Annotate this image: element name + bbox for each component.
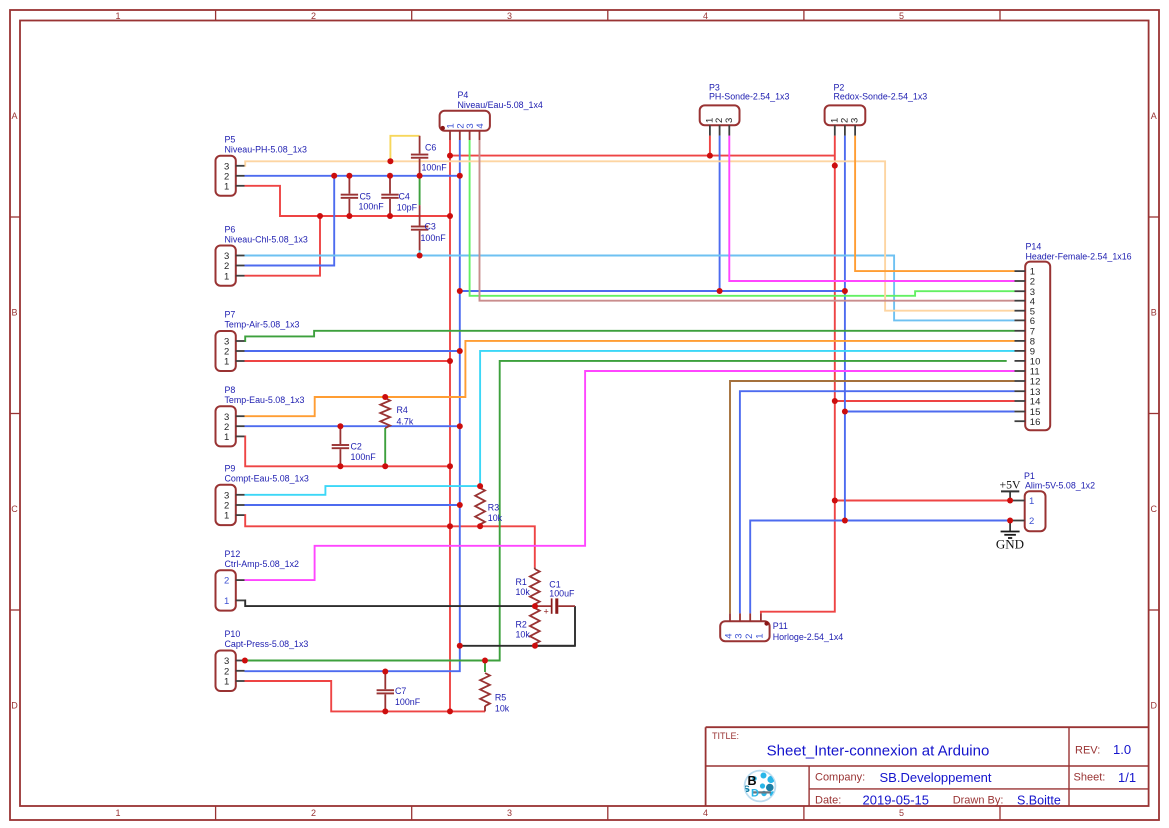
svg-text:1/1: 1/1: [1118, 770, 1136, 785]
border row tick left: [10, 216, 20, 218]
connector P10: [216, 651, 245, 692]
junction R4 top orange: [382, 394, 388, 400]
junction C6 bottom blue bus: [417, 173, 423, 179]
svg-text:Redox-Sonde-2.54_1x3: Redox-Sonde-2.54_1x3: [834, 91, 928, 101]
svg-text:B: B: [1151, 308, 1157, 318]
svg-text:Sheet:: Sheet:: [1074, 772, 1106, 784]
P11 pin1 junction dot inside box: [764, 621, 768, 625]
svg-text:A: A: [11, 111, 17, 121]
border column tick top: [411, 10, 413, 21]
junction GND node: [1007, 518, 1013, 524]
junction C2 top: [337, 423, 343, 429]
svg-text:D: D: [751, 788, 759, 800]
resistor R1: [530, 569, 540, 604]
svg-text:3: 3: [507, 808, 512, 818]
connector P1: [1010, 491, 1045, 531]
wire P6 pin1 branch: [245, 216, 321, 276]
svg-text:10k: 10k: [495, 703, 510, 713]
junction C4 top: [387, 173, 393, 179]
svg-text:4: 4: [703, 11, 708, 21]
svg-text:+: +: [544, 607, 549, 617]
ground symbol GND: [1001, 521, 1020, 539]
connector P2: [825, 105, 866, 135]
svg-text:10pF: 10pF: [397, 203, 418, 213]
svg-text:P8: P8: [225, 385, 236, 395]
border column tick bottom: [999, 806, 1001, 820]
capacitor C5: [341, 176, 358, 216]
border column tick bottom: [215, 806, 217, 820]
svg-text:P4: P4: [458, 90, 469, 100]
junction P6 pin2 branch: [331, 173, 337, 179]
junction R3 top cyan: [477, 483, 483, 489]
wire red net horizontal to P3/P2: [450, 155, 835, 157]
junction C7 bottom: [382, 708, 388, 714]
svg-text:2: 2: [224, 576, 229, 587]
svg-text:D: D: [11, 701, 18, 711]
border column tick bottom: [607, 806, 609, 820]
svg-text:Capt-Press-5.08_1x3: Capt-Press-5.08_1x3: [225, 639, 309, 649]
svg-text:C4: C4: [399, 192, 410, 202]
svg-text:10k: 10k: [516, 629, 531, 639]
junction P2 pin2: [842, 288, 848, 294]
svg-text:1: 1: [1029, 496, 1034, 507]
junction P7 pin1: [447, 358, 453, 364]
connector P11: [720, 613, 769, 641]
svg-text:Header-Female-2.54_1x16: Header-Female-2.54_1x16: [1026, 251, 1132, 261]
svg-text:PH-Sonde-2.54_1x3: PH-Sonde-2.54_1x3: [709, 91, 789, 101]
svg-text:1: 1: [224, 511, 229, 522]
svg-text:10k: 10k: [516, 587, 531, 597]
svg-text:C5: C5: [360, 192, 371, 202]
svg-text:4.7k: 4.7k: [397, 417, 414, 427]
junction C5 bottom: [346, 213, 352, 219]
junction P3 pin1: [707, 153, 713, 159]
svg-text:2: 2: [1029, 516, 1034, 527]
R3 bottom lead: [479, 524, 481, 526]
svg-text:4: 4: [475, 123, 486, 128]
wire P14 pin13 to P11 pin3: [740, 391, 1015, 613]
junction R2 bottom: [532, 643, 538, 649]
wire green segment R5 top: [484, 661, 486, 673]
svg-text:R2: R2: [516, 619, 527, 629]
svg-text:GND: GND: [996, 537, 1024, 552]
svg-text:100nF: 100nF: [422, 163, 448, 173]
wire P14 pin12 to P11 pin4 brown: [730, 381, 1015, 613]
title block outline: [706, 727, 1149, 806]
wire P12 pin1 black net: [245, 600, 536, 606]
svg-text:6: 6: [1030, 316, 1035, 327]
svg-text:3: 3: [507, 11, 512, 21]
svg-text:Company:: Company:: [815, 772, 865, 784]
capacitor C2: [332, 426, 349, 466]
svg-text:100nF: 100nF: [421, 233, 447, 243]
junction red net P14 pin14: [832, 398, 838, 404]
wire P6 pin2 branch to blue line: [245, 176, 335, 266]
junction R1 bottom black node: [532, 603, 538, 609]
svg-text:Temp-Eau-5.08_1x3: Temp-Eau-5.08_1x3: [225, 395, 305, 405]
wire P10 pin1 to red bus and R5 bottom: [245, 681, 486, 711]
wire P12 pin2 to P14 pin11 magenta: [245, 371, 1015, 580]
junction R5 top green: [482, 658, 488, 664]
wire green segment R4 bottom: [384, 428, 386, 466]
wire P3 pin2 to blue net: [719, 136, 721, 291]
svg-text:100nF: 100nF: [351, 452, 377, 462]
junction P3 pin2: [717, 288, 723, 294]
connector P8: [216, 406, 245, 446]
svg-text:5: 5: [899, 11, 904, 21]
svg-text:3: 3: [724, 118, 735, 123]
svg-text:P14: P14: [1026, 242, 1042, 252]
svg-text:16: 16: [1030, 417, 1041, 428]
wire P8 pin3 to P14 pin8 orange: [245, 341, 1015, 416]
junction P8 pin2: [457, 423, 463, 429]
svg-text:C: C: [1151, 504, 1158, 514]
svg-text:Horloge-2.54_1x4: Horloge-2.54_1x4: [773, 632, 844, 642]
svg-text:10k: 10k: [488, 513, 503, 523]
wire P2 pin2 vertical to P11/P1 row: [844, 136, 846, 521]
wire P7 pin2 to blue bus: [245, 350, 460, 352]
junction C5 top: [346, 173, 352, 179]
svg-text:14: 14: [1030, 397, 1041, 408]
svg-text:+5V: +5V: [999, 478, 1021, 492]
svg-text:TITLE:: TITLE:: [712, 731, 739, 741]
border column tick top: [607, 10, 609, 21]
svg-text:2019-05-15: 2019-05-15: [863, 793, 930, 808]
border column tick top: [215, 10, 217, 21]
resistor R4: [380, 398, 390, 428]
wire P9 pin3 to P14 pin9 cyan: [245, 486, 481, 495]
svg-text:1: 1: [224, 181, 229, 192]
wire black R2 bottom row: [535, 645, 575, 647]
svg-text:5: 5: [899, 808, 904, 818]
svg-text:1: 1: [115, 11, 120, 21]
junction red bus y216: [447, 213, 453, 219]
title block company logo: [744, 771, 776, 802]
connector P3: [700, 105, 740, 135]
R5 bottom lead: [484, 706, 486, 711]
svg-text:100uF: 100uF: [549, 588, 575, 598]
title block logo cell divider: [808, 766, 810, 806]
junction P9 pin2: [457, 502, 463, 508]
svg-text:REV:: REV:: [1075, 744, 1100, 756]
capacitor C4: [381, 176, 398, 216]
svg-text:Niveau/Eau-5.08_1x4: Niveau/Eau-5.08_1x4: [458, 100, 543, 110]
svg-text:A: A: [1151, 111, 1157, 121]
junction P7 pin2: [457, 348, 463, 354]
junction red bus y526: [447, 523, 453, 529]
junction R4 bottom: [382, 463, 388, 469]
junction red bus bottom: [447, 708, 453, 714]
+5V power symbol: [1001, 491, 1019, 500]
svg-text:P9: P9: [225, 463, 236, 473]
wire +5V red net: P4 pin1 vertical bus: [449, 140, 451, 711]
wire P8 pin2 to blue bus: [245, 425, 460, 427]
junction C7 top: [382, 669, 388, 675]
svg-text:1: 1: [224, 677, 229, 688]
wire P3 pin1 to red net: [709, 136, 711, 156]
junction R3 bottom: [477, 523, 483, 529]
svg-text:C3: C3: [425, 222, 436, 232]
svg-text:1: 1: [755, 634, 766, 639]
junction black line blue bus: [457, 643, 463, 649]
title block row divider 1: [706, 765, 1149, 767]
junction C2 bottom: [337, 463, 343, 469]
svg-text:P7: P7: [225, 310, 236, 320]
svg-text:C6: C6: [425, 143, 436, 153]
wire black net C1 return to blue bus: [460, 606, 575, 646]
svg-text:1: 1: [224, 596, 229, 607]
svg-text:P5: P5: [225, 135, 236, 145]
R2 bottom lead: [534, 644, 536, 646]
connector P6: [216, 246, 245, 286]
svg-text:1.0: 1.0: [1113, 742, 1131, 757]
svg-text:P6: P6: [225, 224, 236, 234]
svg-text:Compt-Eau-5.08_1x3: Compt-Eau-5.08_1x3: [225, 473, 309, 483]
connector P12: [216, 570, 245, 610]
P4 pin1 junction dot inside box: [441, 126, 445, 130]
svg-text:R4: R4: [397, 405, 408, 415]
border column tick top: [999, 10, 1001, 21]
wire cyan R3 top to P14 pin9: [480, 351, 1014, 486]
svg-text:R5: R5: [495, 693, 506, 703]
svg-text:R3: R3: [488, 502, 499, 512]
wire P5 pin3 to P14 pin5 peach: [245, 161, 1015, 310]
junction red bus y466: [447, 463, 453, 469]
border column tick bottom: [803, 806, 805, 820]
wire blue net horizontal to P3/P2 pin2: [460, 290, 845, 292]
svg-text:1: 1: [224, 271, 229, 282]
svg-text:1: 1: [115, 808, 120, 818]
junction P2 pin1: [832, 163, 838, 169]
svg-text:Sheet_Inter-connexion at Ardui: Sheet_Inter-connexion at Arduino: [767, 742, 990, 759]
junction red bus to P3/P2 row: [447, 153, 453, 159]
wire red net to P14 pin14: [835, 400, 1015, 402]
svg-text:C2: C2: [351, 442, 362, 452]
border row tick right: [1149, 413, 1159, 415]
wire P10 pin3 to P14 pin10 green open end: [245, 361, 1007, 661]
wire C3 bottom cyan stub: [419, 250, 421, 255]
svg-text:2: 2: [744, 634, 755, 639]
connector P14 header female 1x16: [1015, 262, 1051, 431]
svg-text:Date:: Date:: [815, 794, 841, 806]
border row tick left: [10, 413, 20, 415]
resistor R5: [480, 673, 490, 706]
svg-text:R1: R1: [516, 577, 527, 587]
svg-text:100nF: 100nF: [395, 697, 421, 707]
svg-text:P12: P12: [225, 549, 241, 559]
wire P11 pin2 to blue net and P1 pin2 GND: [750, 521, 1010, 614]
svg-text:1: 1: [224, 432, 229, 443]
svg-text:Niveau-Chl-5.08_1x3: Niveau-Chl-5.08_1x3: [225, 234, 308, 244]
wire P6 pin3 to P14 pin6 sky blue: [245, 256, 1015, 321]
svg-text:D: D: [1151, 701, 1158, 711]
wire blue net to P14 pin15: [845, 411, 1015, 413]
R3 top lead: [479, 486, 481, 488]
border row tick right: [1149, 216, 1159, 218]
resistor R2: [530, 608, 540, 644]
border row tick right: [1149, 609, 1159, 611]
svg-text:4: 4: [703, 808, 708, 818]
wire P3 pin3 to P14 pin2 magenta: [729, 136, 1014, 281]
title block row divider 2: [809, 788, 1148, 790]
svg-text:B: B: [11, 308, 17, 318]
svg-text:Niveau-PH-5.08_1x3: Niveau-PH-5.08_1x3: [225, 145, 307, 155]
junction C3 bottom sky line: [417, 253, 423, 259]
wire GND blue net: P4 pin2 vertical bus down to P10 pin2: [245, 140, 460, 671]
connector P5: [216, 156, 245, 196]
wire P9 pin2 to blue bus: [245, 504, 460, 506]
svg-text:100nF: 100nF: [359, 202, 385, 212]
resistor R3: [475, 488, 485, 524]
junction +5V node: [1007, 498, 1013, 504]
svg-text:C: C: [11, 504, 18, 514]
wire P5 pin1 to red bus: [245, 186, 451, 216]
junction C4 bottom: [387, 213, 393, 219]
junction blue bus branch y291: [457, 288, 463, 294]
border row tick left: [10, 609, 20, 611]
junction peach/yellow node: [387, 158, 393, 164]
border column tick bottom: [411, 806, 413, 820]
svg-text:2: 2: [311, 808, 316, 818]
svg-text:S.Boitte: S.Boitte: [1017, 794, 1061, 808]
wire P4 pin4 to P14 pin4 rosybrown: [480, 140, 1015, 301]
capacitor C1 polarized horizontal: [535, 598, 575, 616]
capacitor C6: [411, 136, 428, 176]
svg-text:3: 3: [850, 118, 861, 123]
junction red net +5V branch: [832, 498, 838, 504]
wire green segment C6 bottom to C3 top: [419, 176, 421, 205]
border column tick top: [803, 10, 805, 21]
svg-text:Temp-Air-5.08_1x3: Temp-Air-5.08_1x3: [225, 320, 300, 330]
svg-text:Drawn By:: Drawn By:: [953, 794, 1004, 806]
capacitor C3: [411, 205, 428, 250]
svg-text:Alim-5V-5.08_1x2: Alim-5V-5.08_1x2: [1025, 481, 1095, 491]
junction blue net P11 row: [842, 518, 848, 524]
svg-text:2: 2: [311, 11, 316, 21]
svg-text:Ctrl-Amp-5.08_1x2: Ctrl-Amp-5.08_1x2: [225, 559, 300, 569]
svg-text:1: 1: [224, 357, 229, 368]
wire P2 pin3 to P14 pin1 orange: [855, 136, 1014, 272]
wire P4 pin3 to P14 pin3 bright green: [470, 140, 1015, 296]
wire P2 pin1 down to P11 pin1: [761, 136, 835, 614]
R1 top lead: [534, 567, 536, 569]
wire P7 pin3 to P14 pin7 green: [245, 331, 1015, 341]
junction P10 pin3 stub: [242, 658, 248, 664]
junction P6 pin1 branch: [317, 213, 323, 219]
wire yellow C6 link to peach net: [390, 136, 419, 162]
capacitor C7: [377, 672, 394, 712]
svg-text:P10: P10: [225, 629, 241, 639]
connector P7: [216, 331, 245, 371]
junction blue net P14 pin15: [842, 409, 848, 415]
junction blue bus P5 line: [457, 173, 463, 179]
wire P7 pin1 to red bus: [245, 360, 451, 362]
connector P4: [440, 111, 490, 140]
wire P9 pin1 to red bus and R1 top: [245, 515, 535, 567]
svg-text:P11: P11: [773, 621, 788, 631]
wire P5 pin2 to blue bus: [245, 175, 460, 177]
svg-text:C7: C7: [395, 686, 406, 696]
wire red net to P1 pin1 +5V: [835, 500, 1010, 502]
connector P9: [216, 485, 245, 525]
title block REV column divider: [1068, 727, 1070, 806]
svg-text:SB.Developpement: SB.Developpement: [880, 770, 992, 785]
wire P8 pin1 to red bus: [245, 436, 451, 466]
